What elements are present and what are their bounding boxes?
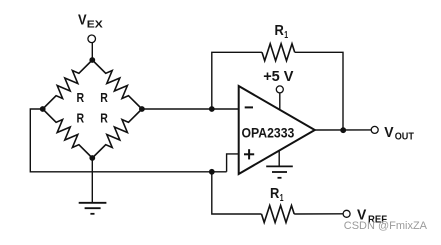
svg-text:R: R xyxy=(270,185,279,202)
svg-text:R: R xyxy=(100,111,108,126)
svg-text:EX: EX xyxy=(87,20,103,31)
svg-text:R: R xyxy=(100,90,108,105)
svg-text:+5 V: +5 V xyxy=(263,68,294,85)
svg-text:R: R xyxy=(77,111,85,126)
svg-text:OPA2333: OPA2333 xyxy=(242,126,295,142)
svg-text:1: 1 xyxy=(284,30,288,41)
svg-text:R: R xyxy=(275,22,284,39)
svg-text:V: V xyxy=(384,124,394,141)
svg-text:R: R xyxy=(77,90,85,105)
svg-text:OUT: OUT xyxy=(395,131,414,142)
svg-text:CSDN @FmixZA: CSDN @FmixZA xyxy=(344,220,428,232)
svg-text:1: 1 xyxy=(280,193,284,204)
